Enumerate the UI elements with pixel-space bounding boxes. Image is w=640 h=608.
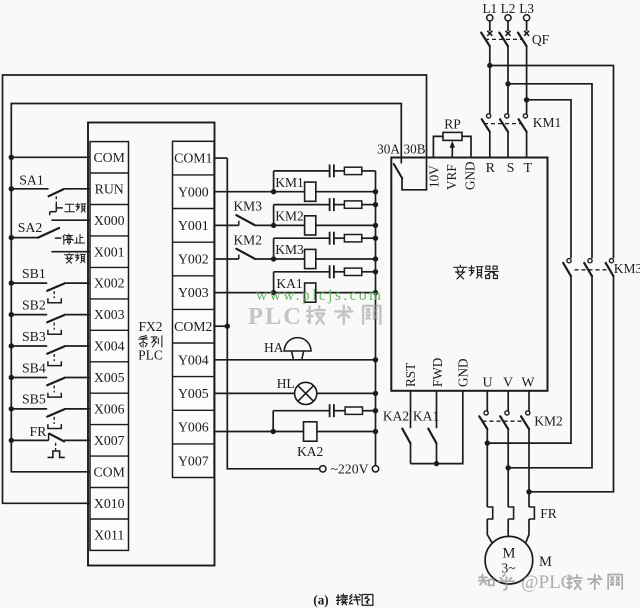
pushbutton SB1 (input X002)	[9, 280, 90, 302]
junction on supply bus	[373, 236, 378, 241]
svg-text:Y000: Y000	[178, 184, 209, 199]
svg-text:30A: 30A	[377, 142, 400, 157]
watermark 知乎 @PLC技术网	[479, 572, 623, 593]
PLC label FX2 series	[138, 319, 163, 363]
svg-text:X010: X010	[94, 496, 125, 511]
coil KM3	[271, 249, 378, 268]
contactor KM3 main contacts	[563, 259, 613, 277]
svg-text:KA2: KA2	[297, 444, 323, 459]
wire Y output to KM1 branch	[214, 191, 274, 193]
lamp HL	[295, 382, 317, 404]
coil KM2	[271, 216, 378, 235]
svg-text:FR: FR	[540, 506, 557, 521]
svg-text:10V: 10V	[427, 165, 442, 188]
svg-text:COM2: COM2	[174, 319, 212, 334]
PLC output terminal column	[173, 141, 215, 477]
svg-text:KM1: KM1	[533, 115, 562, 130]
thermal relay contact FR (input X007)	[9, 433, 90, 457]
wire L2 drop + junction	[505, 46, 510, 113]
wire KM3 pole to V join	[508, 276, 592, 468]
wire COM1 to neutral bus	[214, 157, 227, 159]
bypass feed wire to KM3 (phase T)	[527, 100, 571, 258]
horn HA	[284, 338, 311, 360]
potentiometer RP	[433, 132, 471, 157]
contactor KM1 main contacts	[482, 114, 528, 158]
bypass feed wire to KM3 (phase S)	[508, 84, 592, 258]
label 变频 (variable-frequency position)	[64, 253, 85, 263]
coil KA2	[304, 422, 379, 441]
wire KM3 pole to U join	[487, 276, 571, 443]
svg-text:SA1: SA1	[19, 173, 44, 188]
svg-text:PLC: PLC	[248, 303, 303, 330]
svg-text:X004: X004	[94, 339, 125, 354]
svg-text:W: W	[521, 376, 535, 391]
wire contacts common to GND	[411, 391, 463, 467]
svg-text:KM1: KM1	[275, 175, 304, 190]
wire Y output to KM2 branch	[214, 215, 274, 225]
svg-text:GND: GND	[456, 358, 471, 387]
PLC input terminal column	[90, 142, 129, 551]
wire Y005 to lamp HL	[214, 391, 378, 396]
svg-text:3~: 3~	[501, 561, 515, 576]
svg-text:L3: L3	[519, 1, 534, 16]
svg-text:SB5: SB5	[22, 392, 46, 407]
svg-text:COM: COM	[93, 464, 124, 479]
svg-text:SB4: SB4	[22, 360, 46, 375]
pushbutton SB4 (input X005)	[9, 375, 90, 397]
svg-text:X011: X011	[94, 527, 124, 542]
svg-text:U: U	[482, 376, 492, 391]
wire L3 drop + junction	[524, 46, 529, 113]
svg-text:V: V	[503, 376, 513, 391]
inverter 变频器 box	[391, 158, 547, 391]
svg-text:HA: HA	[264, 340, 284, 355]
RC snubber branch of KM1	[274, 164, 376, 191]
motor M 3~	[485, 536, 533, 584]
svg-text:FR: FR	[30, 424, 48, 439]
wire U phase to motor	[485, 429, 490, 507]
svg-text:L1: L1	[482, 1, 497, 16]
svg-text:FWD: FWD	[430, 358, 445, 387]
supply bus ~220V live	[375, 171, 377, 466]
svg-text:L2: L2	[501, 1, 516, 16]
svg-text:X005: X005	[94, 370, 125, 385]
svg-text:KM2: KM2	[534, 414, 563, 429]
svg-text:Y007: Y007	[178, 453, 209, 468]
output terminal labels COM1..Y007	[174, 151, 212, 469]
coil KM1	[271, 182, 378, 201]
svg-text:FX2: FX2	[138, 319, 162, 334]
svg-text:Y005: Y005	[178, 386, 209, 401]
svg-text:KM3: KM3	[275, 242, 304, 257]
svg-text:@PLC: @PLC	[521, 572, 573, 593]
pushbutton SB2 (input X003)	[9, 312, 90, 334]
neutral bus (COM1/COM2 common)	[227, 158, 319, 469]
svg-text:VRF: VRF	[444, 164, 459, 190]
svg-text:X003: X003	[94, 307, 125, 322]
svg-text:HL: HL	[277, 376, 295, 391]
svg-text:PLC: PLC	[138, 348, 163, 363]
svg-text:Y006: Y006	[178, 420, 209, 435]
switch SA2 (selector, X000/X001)	[9, 220, 90, 252]
pushbutton SB5 (input X006)	[9, 406, 90, 428]
svg-text:X001: X001	[94, 244, 125, 259]
svg-text:QF: QF	[532, 32, 550, 47]
svg-text:SB1: SB1	[22, 266, 46, 281]
label 变频器	[454, 265, 498, 279]
RC snubber branch of KA2	[273, 404, 378, 431]
svg-text:COM1: COM1	[174, 151, 212, 166]
svg-text:RST: RST	[403, 363, 418, 387]
svg-text:COM: COM	[93, 150, 124, 165]
wire Y output to KA1 branch	[214, 292, 274, 294]
supply terminals L1 L2 L3	[482, 1, 534, 21]
svg-text:GND: GND	[463, 161, 478, 190]
input terminal labels COM..X011	[93, 150, 124, 542]
label 停止 (stop position)	[63, 234, 85, 245]
PLC label 系列	[139, 336, 162, 348]
svg-text:T: T	[524, 161, 533, 176]
svg-text:RP: RP	[444, 117, 461, 132]
svg-text:SB3: SB3	[22, 329, 46, 344]
svg-text:R: R	[486, 161, 496, 176]
svg-text:www.plcjs.com: www.plcjs.com	[256, 287, 384, 304]
svg-text:KA2: KA2	[383, 409, 409, 424]
svg-text:X006: X006	[94, 402, 125, 417]
svg-text:Y001: Y001	[178, 218, 209, 233]
svg-text:~220V: ~220V	[330, 462, 368, 477]
coil KA1	[271, 283, 378, 302]
svg-text:KA1: KA1	[413, 409, 439, 424]
wire L1 drop + junction	[487, 46, 492, 113]
switch SA1 (selector, RUN input)	[9, 186, 90, 215]
wire outer loop: COM(top) to 30A/30B common and X010	[3, 75, 427, 503]
wire Y006 to relay KA2	[214, 429, 303, 434]
junction on supply bus	[373, 269, 378, 274]
relay contact KA1 (FWD)	[428, 391, 436, 464]
svg-text:X007: X007	[94, 433, 125, 448]
RC snubber branch of KM3	[274, 232, 376, 259]
pushbutton SB3 (input X004)	[9, 343, 90, 365]
svg-text:(a): (a)	[313, 593, 328, 608]
svg-text:X002: X002	[94, 276, 125, 291]
bypass feed wire to KM3 (phase R)	[490, 66, 614, 259]
wire W phase to motor	[526, 429, 531, 507]
PLC FX2 outer box	[88, 123, 215, 566]
svg-text:M: M	[539, 554, 552, 570]
svg-text:KM2: KM2	[275, 209, 304, 224]
svg-text:Y004: Y004	[178, 352, 209, 367]
svg-text:M: M	[503, 546, 516, 562]
svg-text:KM2: KM2	[233, 232, 262, 247]
circuit breaker QF	[481, 21, 529, 46]
svg-text:SA2: SA2	[18, 220, 43, 235]
svg-text:Y002: Y002	[178, 252, 209, 267]
svg-text:KM3: KM3	[614, 261, 640, 276]
motor leads	[487, 519, 529, 543]
contactor KM2 main contacts	[479, 391, 530, 429]
RC snubber branch of KM2	[274, 198, 376, 225]
RC snubber branch of KA1	[274, 265, 376, 292]
label 工频 (power-frequency position)	[65, 203, 86, 212]
svg-text:Y003: Y003	[178, 285, 209, 300]
fault relay contact 30A/30B inside inverter	[394, 164, 403, 179]
wire COM2 to neutral bus	[214, 324, 230, 329]
junction on supply bus	[373, 202, 378, 207]
watermark PLC技术网 (center)	[248, 303, 380, 330]
svg-text:SB2: SB2	[22, 297, 46, 312]
wire Y output to KM3 branch	[214, 249, 274, 259]
svg-text:KM3: KM3	[233, 199, 262, 214]
wire V phase to motor	[506, 429, 511, 507]
wire Y004 to horn HA	[214, 357, 378, 362]
svg-text:30B: 30B	[404, 142, 426, 157]
svg-text:RUN: RUN	[95, 181, 124, 196]
AC source ~220V terminals	[320, 466, 379, 472]
thermal overload FR heaters	[487, 507, 534, 519]
relay contact KA2 (RST)	[402, 391, 410, 464]
wire COM row	[9, 155, 90, 160]
wire KM3 pole to W join	[529, 276, 614, 492]
svg-text:X000: X000	[94, 213, 125, 228]
wire inner loop: input bus to 30B	[11, 104, 401, 472]
svg-text:S: S	[507, 161, 515, 176]
